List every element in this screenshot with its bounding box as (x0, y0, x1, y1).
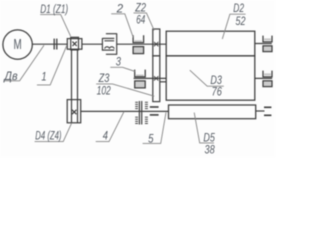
label 4 leader (96, 112, 124, 142)
gear coupling (ribbed) on lower shaft (135, 101, 148, 125)
bearing (right, middle shaft) (263, 71, 272, 87)
gear Z3 102 (lower gear of column) (153, 56, 160, 102)
wire: middle shaft (D3) left (134, 77, 167, 79)
svg-text:4: 4 (103, 128, 108, 142)
motor M (3, 30, 32, 59)
pulley D1 (Z1) (67, 37, 82, 50)
pulley D4 (Z4) (67, 100, 81, 123)
svg-text:52: 52 (236, 14, 246, 28)
label D2/52 fraction bar and leader (222, 14, 245, 39)
hub line between gear Z3 and drum D3 (160, 81, 166, 83)
label D4 (Z4) leader (35, 123, 72, 142)
label D3/76 fraction bar and leader (190, 70, 224, 86)
bearing (left of roller D5, simplified) (150, 107, 159, 115)
wire: shaft to gearbox (117, 43, 167, 45)
gear Z2 64 (upper gear of column) (153, 29, 160, 56)
wire: shaft to elastic coupling (82, 43, 103, 45)
shaft mark X on gear Z2 (154, 42, 158, 46)
wire: motor shaft (32, 43, 67, 45)
svg-text:76: 76 (212, 84, 222, 98)
label 5 leader (143, 112, 166, 143)
label Z3/102 fraction bar and leader (96, 84, 154, 96)
shaft mark X on gear Z3 (154, 76, 158, 80)
label Дв leader (4, 45, 44, 81)
svg-text:1: 1 (41, 70, 46, 84)
svg-text:3: 3 (116, 54, 121, 68)
coupling C1 (two-bar) (54, 39, 57, 50)
wire: D2 shaft right stub (255, 43, 272, 45)
svg-text:2: 2 (116, 1, 124, 15)
svg-text:102: 102 (97, 84, 111, 98)
svg-text:D2: D2 (233, 1, 244, 15)
belt (72, 50, 78, 100)
svg-text:D1 (Z1): D1 (Z1) (40, 2, 68, 16)
svg-text:38: 38 (205, 143, 215, 157)
svg-text:Дв: Дв (3, 69, 18, 83)
elastic coupling 2 (102, 33, 116, 55)
roller D5 38 (169, 105, 256, 119)
label D5/38 fraction bar and leader (194, 113, 214, 143)
wire: D5 shaft right stub (256, 110, 265, 112)
wire: D3 shaft right stub (255, 77, 272, 79)
svg-text:D4 (Z4): D4 (Z4) (35, 128, 61, 142)
label Z2/64 fraction bar and leader (134, 13, 155, 31)
leader lines and underlines (4, 13, 246, 144)
svg-text:M: M (14, 37, 22, 53)
label 3 leader (110, 67, 135, 71)
drum D2 52 (166, 31, 255, 56)
label 1 leader (37, 45, 67, 85)
label 2 leader (111, 14, 133, 38)
bearing (left, middle shaft) (135, 70, 146, 88)
bearing (right of roller D5, simplified) (264, 107, 271, 115)
wire: lower shaft (81, 110, 169, 112)
bearing (right, upper shaft) (263, 36, 272, 52)
svg-text:64: 64 (136, 13, 145, 27)
drum D3 76 (166, 56, 255, 100)
bearing (upper left of gearbox) (133, 35, 144, 53)
svg-text:5: 5 (148, 131, 154, 145)
label D1 (Z1) leader (40, 15, 70, 37)
